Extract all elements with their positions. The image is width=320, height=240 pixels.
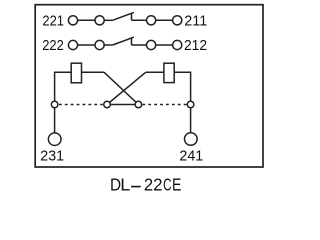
wire node to terminal 241 [190,105,192,140]
dotted wire left [59,104,103,106]
wire X to coil2 left [146,71,164,73]
svg-text:212: 212 [184,37,207,54]
contact row 1: wires 221 to 211 [73,12,177,20]
wire coil1 right to X [82,71,104,73]
svg-text:241: 241 [179,147,203,164]
wire 222 segment [73,44,100,46]
contact arm (make contact) row 2 [113,37,134,45]
contact fixed tick row 1 [131,13,133,20]
contact arm (make contact) row 1 [113,12,134,20]
wire from contact to 212 [132,44,178,46]
node right [187,101,194,108]
dash of DL-22CE [131,186,141,188]
wire node to terminal 231 [54,105,56,140]
contact fixed tick row 2 [131,38,133,45]
label DL-22CE [110,174,181,195]
terminal circles row 2 [68,40,181,49]
node left [51,101,58,108]
terminal 231 circle [48,133,61,146]
svg-text:E: E [172,176,181,195]
terminal 241 circle [185,133,198,146]
svg-text:2: 2 [153,174,162,194]
svg-text:L: L [120,175,130,195]
node mid-left [104,101,111,108]
svg-text:2: 2 [144,175,153,194]
wire coil2 right to corner down to node [175,72,191,104]
wire coil1 left to corner down to node [55,72,71,104]
svg-text:211: 211 [184,12,207,29]
wire to contact arm row 2 [100,44,113,46]
coil circuit wires [55,72,191,139]
dotted wire right [142,104,186,106]
coil K2 [164,63,174,82]
bus wire between middle nodes [107,104,138,106]
svg-text:231: 231 [40,148,64,165]
svg-text:222: 222 [42,37,64,54]
svg-text:221: 221 [42,12,64,29]
wire to contact arm row 1 [100,19,113,21]
wire 221 segment [73,19,100,21]
coil K1 [71,63,81,83]
crossing diagonal A [104,72,138,104]
contact row 2: wires 222 to 212 [73,37,177,45]
enclosure border [35,5,263,167]
node mid-right [135,101,142,108]
wire from contact to 211 [132,19,152,21]
svg-text:C: C [163,177,172,196]
terminal circles row 1 [68,16,181,25]
crossing diagonal B [107,72,146,104]
